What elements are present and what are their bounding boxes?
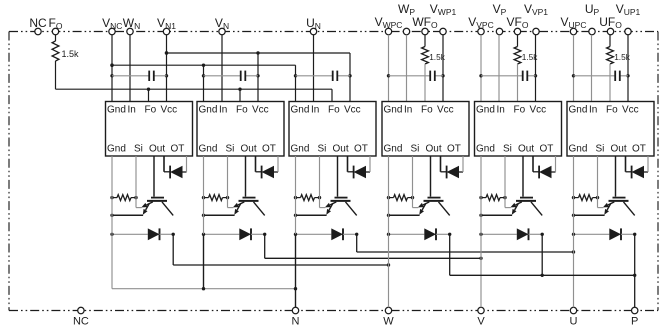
- wire U1 Si sense line: [135, 156, 137, 208]
- svg-text:P: P: [631, 315, 638, 327]
- transistor Q4 IGBT: [428, 197, 441, 199]
- svg-text:Gnd: Gnd: [384, 144, 403, 155]
- terminal FO: [52, 28, 58, 34]
- wire xP to U5 In: [498, 35, 500, 102]
- terminal VVPC: [478, 28, 484, 34]
- svg-text:U: U: [570, 315, 578, 327]
- op-amp U1 gate driver box: [106, 102, 193, 157]
- wire U phase rail to terminal U: [573, 234, 575, 307]
- wire U6 gnd rail: [573, 156, 575, 234]
- svg-text:OT: OT: [447, 144, 461, 155]
- terminal N (bottom): [292, 307, 298, 313]
- svg-text:Fo: Fo: [421, 105, 433, 116]
- wire Gnd bus to U2 Gnd: [203, 65, 205, 101]
- transistor Q3 IGBT: [335, 197, 348, 199]
- terminal V (bottom): [478, 307, 484, 313]
- capacitor C6 (Vcc-Gnd): [574, 75, 616, 77]
- wire U2 Out to gate: [245, 156, 247, 197]
- terminal VFO: [514, 28, 520, 34]
- svg-text:In: In: [128, 105, 136, 116]
- wire module-border right edge: [657, 32, 659, 311]
- wire VN to U2 In: [221, 35, 223, 102]
- wire module-border bottom rail: [9, 310, 658, 312]
- svg-text:Gnd: Gnd: [569, 105, 588, 116]
- wire W phase rail to terminal W: [388, 234, 390, 307]
- resistor R3 (gate/sense): [296, 197, 301, 199]
- svg-text:OT: OT: [262, 144, 276, 155]
- transistor Q5 IGBT: [520, 197, 533, 199]
- svg-text:W: W: [383, 315, 394, 327]
- svg-text:Gnd: Gnd: [291, 144, 310, 155]
- wire module-border left edge: [8, 32, 10, 311]
- wire P collector bus: [449, 234, 451, 275]
- svg-text:Fo: Fo: [606, 105, 618, 116]
- svg-text:OT: OT: [540, 144, 554, 155]
- wire xFO to U5 Fo: [517, 64, 519, 102]
- resistor 1.5k (U4 Fo): [424, 35, 426, 47]
- wire Fo bus (N-side): [56, 88, 333, 90]
- capacitor C4 (Vcc-Gnd): [389, 75, 431, 77]
- svg-text:Gnd: Gnd: [569, 144, 588, 155]
- wire FO to Fo bus: [55, 61, 57, 89]
- resistor 1.5k (FO line): [55, 35, 57, 41]
- resistor 1.5k (U5 Fo): [517, 35, 519, 47]
- svg-text:Out: Out: [149, 144, 165, 155]
- terminal NC: [35, 28, 41, 34]
- resistor R5 (gate/sense): [481, 197, 486, 199]
- capacitor C2 (Vcc-Gnd): [204, 75, 241, 77]
- wire VN1 to U1 Vcc: [166, 35, 168, 102]
- terminal NC (bottom): [78, 307, 84, 313]
- op-amp U5 gate driver box: [475, 102, 562, 157]
- svg-text:Out: Out: [518, 144, 534, 155]
- svg-text:OT: OT: [632, 144, 646, 155]
- wire UN to U3 In: [313, 35, 315, 102]
- terminal UP: [589, 28, 595, 34]
- wire U6 Out to gate: [615, 156, 617, 197]
- svg-text:NC: NC: [73, 315, 89, 327]
- wire Q2 emitter to gnd rail: [204, 214, 235, 216]
- svg-text:Si: Si: [596, 144, 605, 155]
- wire N emitter bus: [111, 234, 113, 288]
- svg-text:Si: Si: [503, 144, 512, 155]
- svg-text:Out: Out: [611, 144, 627, 155]
- diode D3 freewheel: [296, 233, 332, 235]
- terminal P (bottom): [632, 307, 638, 313]
- svg-text:Fo: Fo: [328, 105, 340, 116]
- wire VNC to U1 Gnd: [111, 35, 113, 102]
- op-amp U6 gate driver box: [567, 102, 654, 157]
- wire Fo bus to U1 Fo: [148, 89, 150, 101]
- svg-text:In: In: [219, 105, 227, 116]
- resistor R1 (gate/sense): [112, 197, 117, 199]
- svg-text:Gnd: Gnd: [291, 105, 310, 116]
- wire U3 Si sense line: [319, 156, 321, 208]
- diode D5 freewheel: [481, 233, 517, 235]
- svg-text:Si: Si: [318, 144, 327, 155]
- wire U5 Out to gate: [522, 156, 524, 197]
- terminal U (bottom): [570, 307, 576, 313]
- terminal WFO: [422, 28, 428, 34]
- wire U2 Si sense line: [227, 156, 229, 208]
- terminal VN1: [163, 28, 169, 34]
- transistor Q2 IGBT: [243, 197, 256, 199]
- svg-text:Vcc: Vcc: [437, 105, 454, 116]
- resistor R4 (gate/sense): [389, 197, 394, 199]
- node U3 Gnd cap junction: [294, 74, 297, 77]
- op-amp U4 gate driver box: [382, 102, 469, 157]
- transistor Q6 IGBT: [613, 197, 626, 199]
- terminal VVP1: [533, 28, 539, 34]
- svg-text:Gnd: Gnd: [476, 144, 495, 155]
- svg-text:Gnd: Gnd: [199, 144, 218, 155]
- svg-text:In: In: [589, 105, 597, 116]
- node U3 Vcc cap junction: [348, 74, 351, 77]
- svg-text:Vcc: Vcc: [161, 105, 178, 116]
- terminal VN: [219, 28, 225, 34]
- svg-text:Si: Si: [134, 144, 143, 155]
- wire U1 gnd rail: [111, 156, 113, 234]
- svg-text:V: V: [477, 315, 485, 327]
- wire U2 gnd rail: [203, 156, 205, 234]
- svg-text:In: In: [497, 105, 505, 116]
- svg-text:In: In: [311, 105, 319, 116]
- wire Vcc bus (N-side, VN1): [167, 52, 351, 54]
- svg-text:Vcc: Vcc: [530, 105, 547, 116]
- svg-text:Gnd: Gnd: [476, 105, 495, 116]
- terminal VUP1: [625, 28, 631, 34]
- wire VxPC to U5 Gnd: [480, 35, 482, 102]
- wire VxPC to U4 Gnd: [388, 35, 390, 102]
- wire U4 Si sense line: [412, 156, 414, 208]
- svg-text:Gnd: Gnd: [107, 144, 126, 155]
- wire WN to U1 In: [129, 35, 131, 102]
- wire Q1 emitter to gnd rail: [112, 214, 143, 216]
- wire V phase rail to terminal V: [480, 234, 482, 307]
- capacitor C5 (Vcc-Gnd): [481, 75, 523, 77]
- wire Q5 emitter to gnd rail: [481, 214, 512, 216]
- diode D4 freewheel: [389, 233, 425, 235]
- diode D2 freewheel: [204, 233, 240, 235]
- svg-text:Fo: Fo: [514, 105, 526, 116]
- diode D4t (OT clamp): [440, 156, 442, 172]
- wire VxP1 to U4 Vcc: [442, 35, 444, 102]
- svg-text:OT: OT: [171, 144, 185, 155]
- wire Q4 emitter to gnd rail: [389, 214, 420, 216]
- wire Q6 emitter to gnd rail: [574, 214, 605, 216]
- svg-text:Gnd: Gnd: [384, 105, 403, 116]
- svg-text:In: In: [404, 105, 412, 116]
- diode D6t (OT clamp): [625, 156, 627, 172]
- wire xP to U6 In: [591, 35, 593, 102]
- diode D6 freewheel: [574, 233, 610, 235]
- wire xP to U4 In: [406, 35, 408, 102]
- svg-text:OT: OT: [354, 144, 368, 155]
- wire Fo bus to U2 Fo: [239, 89, 241, 101]
- capacitor C3 (Vcc-Gnd): [296, 75, 333, 77]
- svg-text:Vcc: Vcc: [344, 105, 361, 116]
- wire U4 Out to gate: [430, 156, 432, 197]
- svg-text:Fo: Fo: [236, 105, 248, 116]
- resistor R2 (gate/sense): [204, 197, 209, 199]
- svg-text:NC: NC: [29, 16, 47, 30]
- svg-text:Gnd: Gnd: [199, 105, 218, 116]
- terminal VWP1: [440, 28, 446, 34]
- wire U3 gnd rail: [295, 156, 297, 234]
- wire Vcc bus to U2 Vcc: [257, 53, 259, 102]
- svg-text:Si: Si: [226, 144, 235, 155]
- op-amp U3 gate driver box: [289, 102, 376, 157]
- svg-text:Fo: Fo: [145, 105, 157, 116]
- wire Q1 collector to W phase: [172, 234, 174, 265]
- diode D1 freewheel: [112, 233, 148, 235]
- diode D2t (OT clamp): [255, 156, 257, 172]
- svg-text:Out: Out: [241, 144, 257, 155]
- terminal UN: [310, 28, 316, 34]
- svg-text:Si: Si: [411, 144, 420, 155]
- wire U5 Si sense line: [504, 156, 506, 208]
- terminal WN: [127, 28, 133, 34]
- op-amp U2 gate driver box: [197, 102, 284, 157]
- wire U5 gnd rail: [480, 156, 482, 234]
- svg-text:Vcc: Vcc: [622, 105, 639, 116]
- wire xFO to U4 Fo: [424, 64, 426, 102]
- terminal VWPC: [385, 28, 391, 34]
- resistor R6 (gate/sense): [574, 197, 579, 199]
- wire Q2 collector to V phase: [264, 234, 266, 258]
- wire U3 Out to gate: [337, 156, 339, 197]
- wire module-border top rail: [9, 31, 658, 33]
- terminal VNC: [109, 28, 115, 34]
- terminal UFO: [607, 28, 613, 34]
- wire U1 Out to gate: [153, 156, 155, 197]
- svg-text:Vcc: Vcc: [252, 105, 269, 116]
- wire Q3 emitter to gnd rail: [296, 214, 327, 216]
- wire VxP1 to U6 Vcc: [627, 35, 629, 102]
- wire Gnd bus (N-side, VNC): [112, 64, 296, 66]
- svg-text:1.5k: 1.5k: [62, 49, 80, 59]
- wire U6 Si sense line: [597, 156, 599, 208]
- terminal W (bottom): [385, 307, 391, 313]
- wire Q3 collector to U phase: [356, 234, 358, 252]
- wire U4 gnd rail: [388, 156, 390, 234]
- terminal WP: [403, 28, 409, 34]
- transistor Q1 IGBT: [151, 197, 164, 199]
- svg-text:Out: Out: [426, 144, 442, 155]
- wire VxPC to U6 Gnd: [573, 35, 575, 102]
- terminal VP: [496, 28, 502, 34]
- diode D1t (OT clamp): [163, 156, 165, 172]
- capacitor C1 (Vcc-Gnd): [112, 75, 149, 77]
- wire VxP1 to U5 Vcc: [535, 35, 537, 102]
- terminal VUPC: [570, 28, 576, 34]
- svg-text:Out: Out: [333, 144, 349, 155]
- diode D3t (OT clamp): [347, 156, 349, 172]
- diode D5t (OT clamp): [532, 156, 534, 172]
- resistor 1.5k (U6 Fo): [609, 35, 611, 47]
- svg-text:N: N: [292, 315, 300, 327]
- wire xFO to U6 Fo: [609, 64, 611, 102]
- svg-text:Gnd: Gnd: [107, 105, 126, 116]
